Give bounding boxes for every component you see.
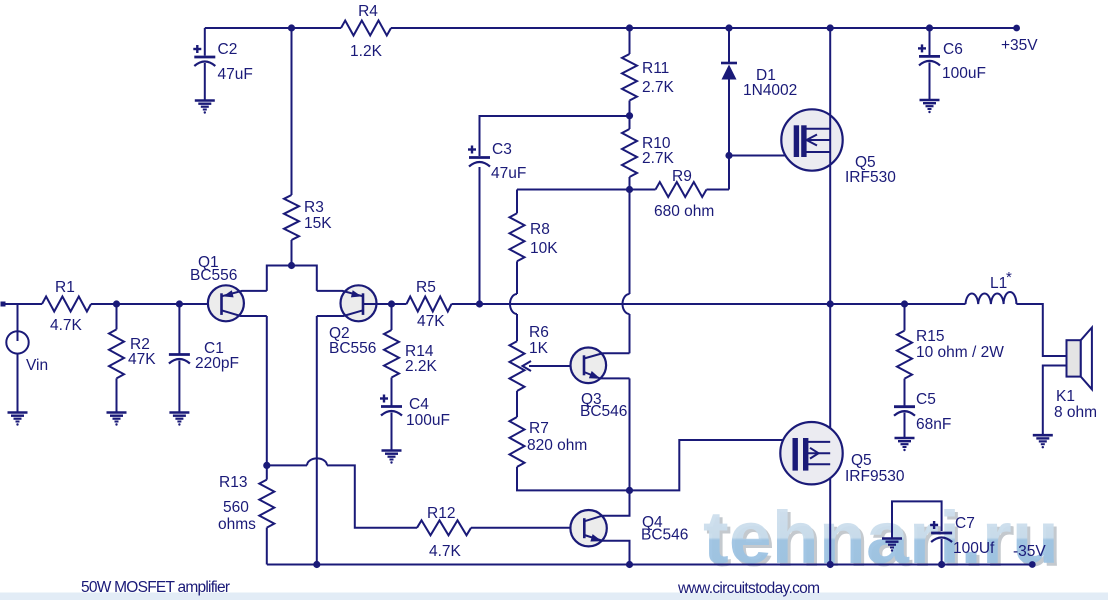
- svg-text:47uF: 47uF: [218, 66, 253, 83]
- wire R15 to C5: [904, 379, 906, 407]
- node Q3-Q4 junction: [626, 487, 633, 494]
- wire IRF530 drain tap: [806, 128, 830, 130]
- wire IRF530 gate lead: [729, 155, 794, 157]
- svg-text:8 ohm: 8 ohm: [1054, 404, 1097, 421]
- node Q4 emitter bottom junction: [626, 561, 633, 568]
- svg-text:-35V: -35V: [1013, 543, 1046, 560]
- capacitor C4: [380, 397, 388, 399]
- node MOSFET bottom junction: [827, 561, 834, 568]
- resistor R8: [510, 213, 525, 261]
- node output-R15 junction: [901, 300, 908, 307]
- wire C7 bottom lead: [941, 539, 943, 565]
- svg-text:1.2K: 1.2K: [350, 43, 383, 60]
- wire R11-R10 link: [629, 101, 631, 130]
- svg-text:4.7K: 4.7K: [50, 317, 83, 334]
- capacitor C7: [930, 524, 938, 526]
- resistor R1: [42, 297, 91, 312]
- capacitor C1: [169, 353, 190, 356]
- wire R2 top lead: [116, 304, 118, 329]
- svg-text:560: 560: [223, 499, 249, 516]
- wire IRF9530 source tap: [808, 463, 830, 465]
- transistor Q5 IRF9530 channel bar: [803, 438, 808, 471]
- resistor R3: [284, 195, 299, 240]
- wire C6 bottom lead: [929, 62, 931, 100]
- resistor R4: [341, 21, 391, 36]
- svg-text:C7: C7: [955, 515, 975, 532]
- resistor R2: [109, 329, 124, 378]
- wire Q1 collector: [222, 310, 267, 316]
- wire R9 left lead: [630, 189, 656, 191]
- wire R14 top lead: [391, 304, 393, 330]
- wire Q2 base lead: [363, 303, 392, 305]
- wire R6 wiper arrow: [523, 361, 532, 371]
- svg-text:R6: R6: [529, 324, 549, 341]
- node Q2 base junction: [388, 300, 395, 307]
- ground C6: [920, 99, 940, 102]
- wire Q1 emitter: [222, 291, 267, 296]
- capacitor C5: [894, 405, 915, 408]
- node rail-R3 junction: [288, 24, 295, 31]
- svg-text:50W MOSFET amplifier: 50W MOSFET amplifier: [81, 579, 230, 596]
- capacitor C2: [193, 48, 201, 50]
- svg-text:IRF9530: IRF9530: [845, 468, 905, 485]
- svg-text:www.circuitstoday.com: www.circuitstoday.com: [677, 580, 820, 597]
- svg-text:2.2K: 2.2K: [405, 358, 438, 375]
- wire R2 bottom lead: [116, 378, 118, 412]
- svg-text:10 ohm / 2W: 10 ohm / 2W: [916, 344, 1004, 361]
- svg-text:2.7K: 2.7K: [642, 79, 675, 96]
- transistor Q2 body: [341, 285, 377, 321]
- svg-text:L1: L1: [990, 275, 1007, 292]
- wire Q3 emitter down: [629, 378, 631, 490]
- node rail-D1 junction: [725, 24, 732, 31]
- wire Q3 collector: [584, 353, 630, 358]
- svg-text:R12: R12: [427, 505, 455, 522]
- node output-C3 junction: [476, 300, 483, 307]
- svg-text:C4: C4: [409, 396, 429, 413]
- svg-text:10K: 10K: [530, 240, 558, 257]
- svg-text:R13: R13: [219, 474, 247, 491]
- svg-text:BC556: BC556: [329, 340, 376, 357]
- wire Vin to ground: [17, 354, 19, 413]
- node D1-gate junction: [725, 152, 732, 159]
- wire R8 top line: [517, 189, 630, 191]
- wire R14 to C4: [391, 378, 393, 407]
- resistor R6: [510, 341, 525, 391]
- wire R7 bottom lead: [517, 467, 630, 491]
- transistor Q5 IRF530 body: [781, 109, 842, 170]
- wire Q3 emitter: [584, 372, 630, 378]
- svg-text:*: *: [1006, 269, 1012, 286]
- svg-text:1N4002: 1N4002: [743, 82, 797, 99]
- ground C4: [382, 449, 402, 452]
- wire Q2 collector down: [316, 316, 318, 565]
- svg-text:+35V: +35V: [1001, 37, 1038, 54]
- wire R8 bottom with hop: [516, 261, 518, 294]
- svg-text:R9: R9: [672, 168, 692, 185]
- wire Q2 emitter: [317, 291, 363, 296]
- node rail-MOSFET junction: [827, 24, 834, 31]
- node input-R2 junction: [113, 300, 120, 307]
- svg-text:BC546: BC546: [641, 527, 688, 544]
- wire speaker bottom terminal: [1043, 366, 1067, 436]
- svg-text:1K: 1K: [529, 340, 549, 357]
- wire +35V top rail: [205, 27, 341, 29]
- wire C1 bottom lead: [178, 361, 180, 413]
- transistor Q5 IRF9530 gate bar: [793, 438, 798, 471]
- svg-text:68nF: 68nF: [916, 416, 951, 433]
- resistor R13: [259, 480, 274, 528]
- wire R10 junction to Q3 collector: [629, 190, 631, 295]
- wire R3 lower lead: [291, 240, 293, 266]
- node output-MOSFET junction: [827, 300, 834, 307]
- svg-text:100uF: 100uF: [942, 65, 986, 82]
- wire Q4 emitter: [584, 535, 629, 565]
- ground R2: [107, 411, 127, 414]
- diode D1: [721, 62, 737, 65]
- transistor Q5 IRF530 gate bar: [794, 125, 799, 157]
- svg-text:680 ohm: 680 ohm: [654, 203, 714, 220]
- svg-text:R7: R7: [529, 420, 549, 437]
- svg-text:R1: R1: [55, 279, 75, 296]
- svg-text:C2: C2: [218, 41, 238, 58]
- wire R6 top lead: [516, 314, 518, 341]
- transistor Q3 body: [571, 348, 607, 384]
- wire emitter bus: [267, 266, 317, 291]
- svg-text:BC556: BC556: [190, 267, 237, 284]
- wire R13 junction to R12: [267, 464, 307, 466]
- transistor Q1 body: [208, 285, 244, 321]
- svg-text:R15: R15: [916, 328, 944, 345]
- node rail-C6 junction: [926, 24, 933, 31]
- resistor R12: [417, 520, 471, 535]
- svg-text:47K: 47K: [417, 313, 445, 330]
- wire R15 top lead: [904, 304, 906, 331]
- wire R11 top lead: [629, 28, 631, 54]
- node R10-R9-R8 junction: [626, 186, 633, 193]
- svg-text:ohms: ohms: [218, 516, 256, 533]
- ground Vin: [8, 411, 28, 414]
- svg-text:R3: R3: [304, 199, 324, 216]
- node emitter bus junction: [288, 262, 295, 269]
- capacitor C6: [918, 47, 926, 49]
- svg-text:C6: C6: [943, 41, 963, 58]
- wire C1 top lead: [178, 304, 180, 355]
- svg-text:820 ohm: 820 ohm: [527, 437, 587, 454]
- node C3 junction: [626, 112, 633, 119]
- wire D1 top lead: [728, 28, 730, 63]
- svg-text:47K: 47K: [128, 351, 156, 368]
- wire C5 bottom lead: [904, 413, 906, 438]
- wire C3 bottom lead: [479, 167, 481, 304]
- wire Q4 collector: [584, 490, 629, 521]
- bottom pale strip: [0, 593, 1108, 600]
- capacitor C3: [468, 148, 476, 150]
- ground C5: [895, 437, 915, 440]
- resistor R11: [622, 54, 637, 101]
- node -35V terminal dot: [1029, 561, 1036, 568]
- wire R3 upper lead: [291, 28, 293, 195]
- ground C7: [882, 537, 902, 540]
- wire R6-R7 link: [516, 391, 518, 417]
- node Q2 collector bottom junction: [313, 561, 320, 568]
- speaker K1 body: [1067, 340, 1081, 376]
- node input terminal: [1, 302, 6, 307]
- svg-text:2.7K: 2.7K: [642, 150, 675, 167]
- svg-text:K1: K1: [1056, 388, 1075, 405]
- node R13-R12 junction: [263, 462, 270, 469]
- svg-text:R4: R4: [358, 3, 378, 20]
- wire output line: [452, 303, 966, 305]
- resistor R5: [392, 303, 407, 305]
- svg-text:C3: C3: [492, 141, 512, 158]
- ground C1: [169, 411, 189, 414]
- wire -35V bottom rail: [267, 564, 1032, 566]
- resistor R7: [510, 417, 525, 467]
- wire IRF9530 body tap: [808, 452, 830, 454]
- node +35V terminal dot: [1013, 25, 1020, 32]
- resistor R14: [384, 330, 399, 378]
- source Vin circle: [17, 304, 19, 331]
- wire R13 to bottom rail: [266, 528, 268, 565]
- svg-text:C5: C5: [916, 391, 936, 408]
- wire to IRF9530 gate: [630, 440, 793, 490]
- inductor L1: [966, 292, 1017, 304]
- node C7 bottom junction: [938, 561, 945, 568]
- svg-text:100Uf: 100Uf: [953, 540, 995, 557]
- wire C4 bottom lead: [391, 413, 393, 451]
- wire R8 top lead: [516, 190, 518, 214]
- resistor R10: [622, 129, 637, 177]
- wire D1 bottom lead: [728, 79, 730, 190]
- wire IRF530 body tap: [806, 139, 830, 141]
- svg-text:R8: R8: [530, 221, 550, 238]
- wire input to R1: [3, 303, 42, 305]
- wire C3 top lead: [480, 116, 630, 156]
- wire L1 to speaker: [1016, 304, 1066, 356]
- resistor R9: [656, 182, 707, 197]
- svg-text:R11: R11: [642, 60, 669, 77]
- wire C2 top lead: [204, 28, 206, 56]
- svg-text:220pF: 220pF: [195, 355, 239, 372]
- wire IRF9530 drain tap: [808, 441, 830, 443]
- ground K1: [1033, 434, 1053, 437]
- node input-C1 junction: [176, 300, 183, 307]
- wire C6 top lead: [929, 28, 931, 56]
- transistor Q4 body: [570, 510, 606, 546]
- wire R12 to Q4 base: [471, 527, 584, 529]
- svg-text:tehnari.ru: tehnari.ru: [703, 496, 1059, 579]
- svg-text:100uF: 100uF: [406, 412, 450, 429]
- wire Q2 collector: [317, 310, 363, 316]
- svg-text:4.7K: 4.7K: [429, 543, 462, 560]
- svg-text:15K: 15K: [304, 215, 332, 232]
- wire R10 bottom lead: [629, 177, 631, 190]
- svg-text:BC546: BC546: [580, 403, 627, 420]
- wire IRF530 source tap: [806, 151, 830, 153]
- svg-text:47uF: 47uF: [491, 165, 526, 182]
- wire C7 top link: [892, 501, 942, 538]
- svg-text:R5: R5: [416, 279, 436, 296]
- node rail-R11 junction: [626, 24, 633, 31]
- wire R9 right lead: [707, 189, 730, 191]
- resistor R15: [897, 331, 912, 379]
- svg-text:Q5: Q5: [851, 452, 872, 469]
- wire Q1 collector down: [266, 316, 268, 480]
- transistor Q5 IRF530 channel bar: [801, 125, 806, 157]
- wire R1 to Q1 base: [91, 303, 222, 305]
- wire MOSFET vertical: [829, 28, 831, 565]
- svg-text:Vin: Vin: [26, 357, 48, 374]
- ground C2: [195, 99, 215, 102]
- transistor Q5 IRF9530 body: [780, 422, 842, 484]
- svg-text:IRF530: IRF530: [845, 169, 896, 186]
